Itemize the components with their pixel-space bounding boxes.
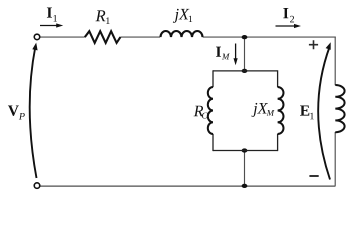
label RC — [194, 106, 208, 119]
box left edge lower — [212, 134, 214, 151]
wire center lower — [244, 151, 246, 186]
node dot bottom — [242, 184, 248, 188]
node dot top — [242, 35, 248, 39]
arrow I2 — [276, 25, 297, 27]
wire right upper — [334, 37, 336, 86]
wire top: inductor to right corner — [203, 36, 336, 38]
arrow I1 — [40, 25, 59, 27]
label IM — [216, 47, 230, 60]
box right edge upper — [277, 70, 279, 87]
terminal bottom-left — [34, 183, 40, 189]
label E1 — [300, 105, 314, 119]
coil RC — [208, 87, 213, 134]
wire top: resistor to inductor — [120, 36, 160, 38]
box right edge lower — [277, 134, 279, 151]
wire top: terminal to resistor — [40, 36, 85, 38]
arrow VP (curved) — [30, 47, 37, 178]
terminal top-left — [34, 34, 40, 40]
label VP — [8, 105, 25, 119]
node dot box bottom — [242, 148, 248, 152]
resistor R1 — [85, 31, 121, 43]
coil jXM — [278, 87, 284, 134]
box left edge upper — [212, 70, 214, 87]
label I2 — [283, 8, 294, 22]
minus sign — [309, 175, 318, 177]
excitation branch box bottom bar — [213, 150, 278, 152]
label jXM — [251, 103, 274, 117]
excitation branch box top bar — [213, 70, 278, 72]
wire right lower — [334, 132, 336, 186]
winding E1 (ideal transformer primary, clipped at right edge) — [335, 85, 344, 132]
label jX1 — [173, 9, 192, 23]
plus sign — [309, 40, 318, 49]
node dot box top — [242, 69, 248, 73]
inductor jX1 — [161, 31, 203, 37]
arrow E1 (curved) — [318, 47, 330, 180]
label R1 — [96, 10, 110, 24]
wire bottom — [40, 185, 336, 187]
arrow IM — [235, 44, 237, 61]
wire center upper — [244, 37, 246, 71]
label I1 — [47, 7, 57, 21]
